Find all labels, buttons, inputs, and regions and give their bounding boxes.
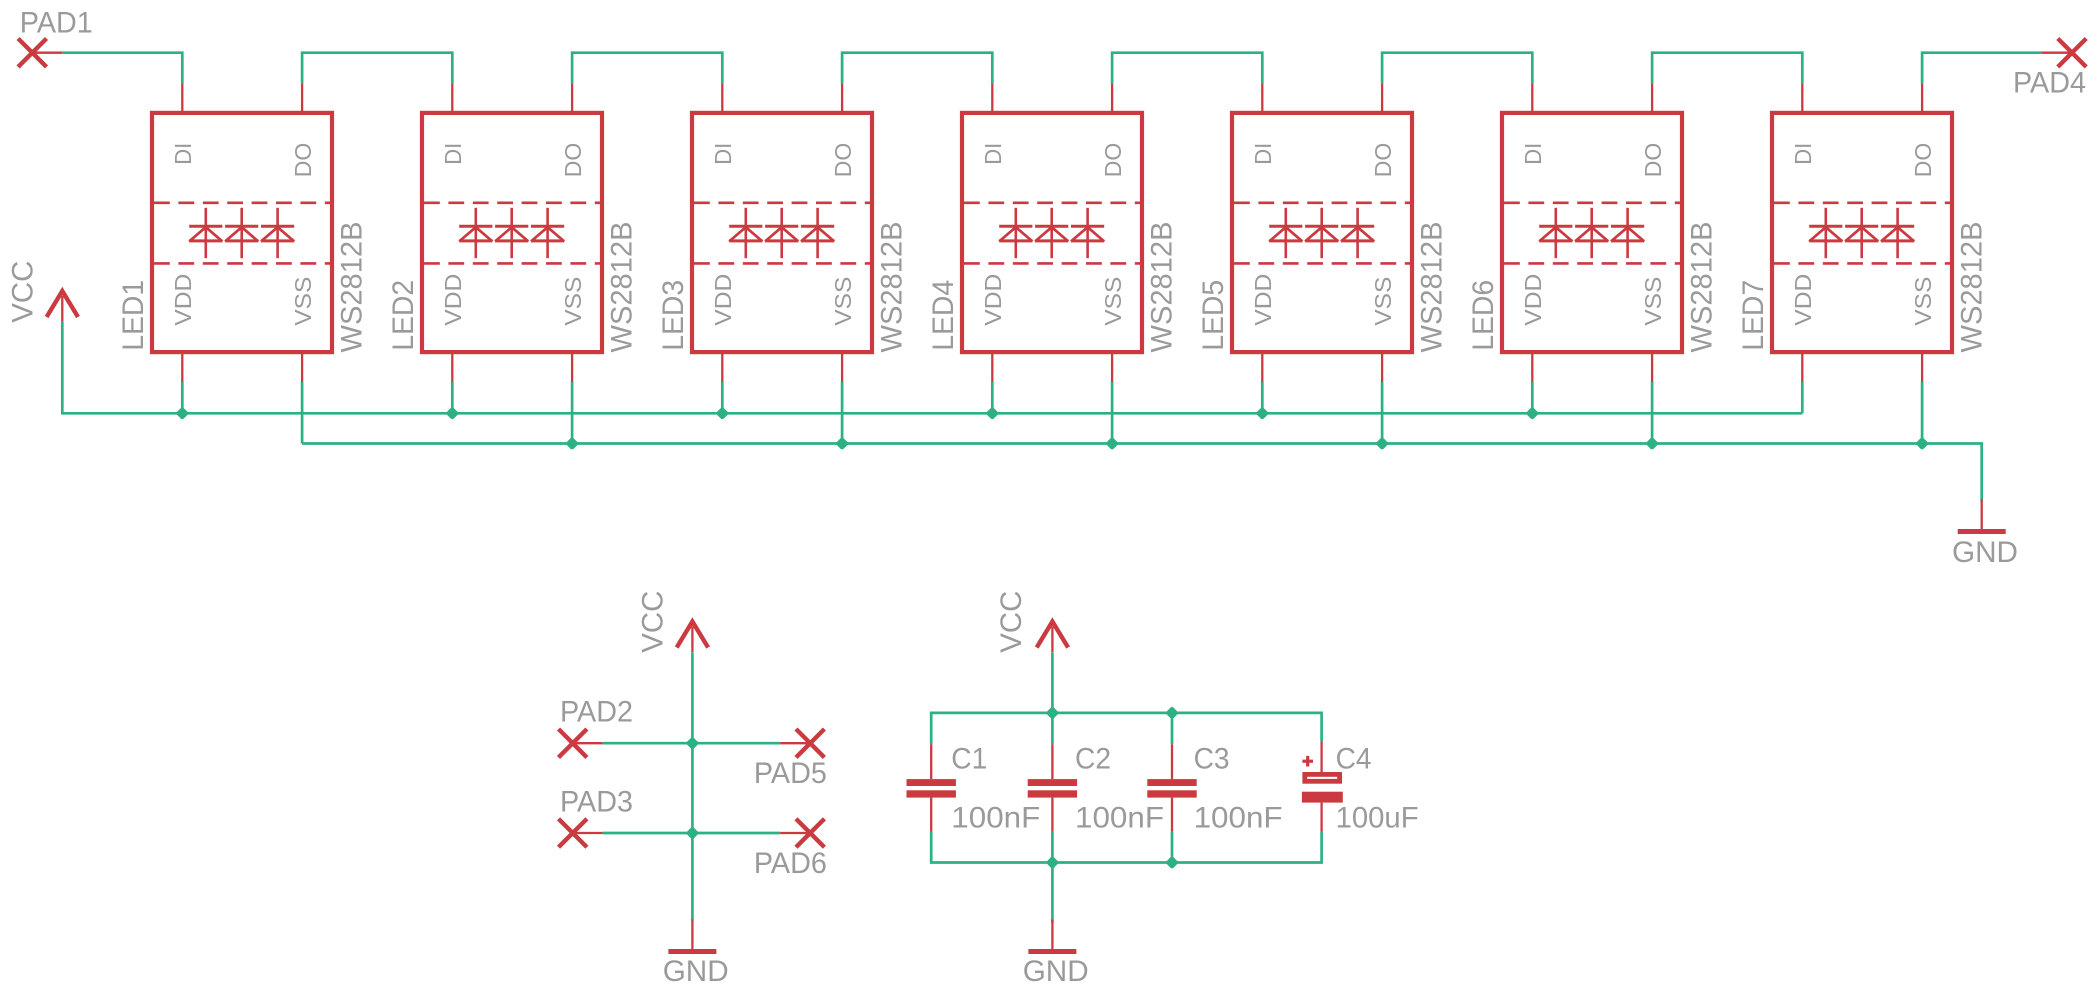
- svg-text:VSS: VSS: [1640, 277, 1666, 326]
- svg-text:C3: C3: [1194, 743, 1230, 776]
- pin VSS of LED7: [1910, 277, 1936, 382]
- IC LED2 WS2812B symbol box: [422, 113, 602, 352]
- svg-text:VDD: VDD: [1520, 274, 1546, 326]
- pin VDD of LED6: [1520, 274, 1546, 382]
- wire LED4 DO to LED5 DI: [1112, 53, 1262, 84]
- internal LED diode 3 of LED5: [1341, 208, 1374, 258]
- internal LED diode 3 of LED7: [1881, 208, 1914, 258]
- wire VCC down to cap top bus: [1051, 652, 1054, 713]
- wire cap bottom bus: [931, 832, 1321, 863]
- svg-text:WS2812B: WS2812B: [1686, 222, 1719, 353]
- svg-text:DI: DI: [1250, 143, 1276, 165]
- wire C3 bottom drop: [1171, 832, 1174, 863]
- svg-text:PAD1: PAD1: [20, 7, 93, 40]
- svg-text:DI: DI: [440, 143, 466, 165]
- svg-text:C4: C4: [1336, 743, 1372, 776]
- svg-text:PAD4: PAD4: [2013, 67, 2086, 100]
- wire LED3 VDD drop: [721, 382, 724, 413]
- internal LED diode 2 of LED1: [225, 208, 258, 258]
- wire node to PAD6: [692, 832, 780, 835]
- svg-text:DO: DO: [1100, 143, 1126, 178]
- svg-text:WS2812B: WS2812B: [606, 222, 639, 353]
- wire LED5 VSS drop: [1381, 382, 1384, 444]
- svg-text:WS2812B: WS2812B: [876, 222, 909, 353]
- pin DI of LED4: [980, 84, 1006, 165]
- wire LED2 DO to LED3 DI: [572, 53, 722, 84]
- ground symbol GND (capacitor bank): [1023, 920, 1089, 989]
- junction on VSS bus at LED2: [565, 437, 579, 451]
- pad PAD5: [754, 729, 827, 790]
- svg-text:DO: DO: [1370, 143, 1396, 178]
- svg-text:C1: C1: [951, 743, 987, 776]
- junction on VDD bus at LED5: [1256, 407, 1270, 421]
- svg-text:100nF: 100nF: [1075, 802, 1164, 835]
- svg-text:VDD: VDD: [440, 274, 466, 326]
- junction on VDD bus at LED3: [716, 407, 730, 421]
- svg-text:VDD: VDD: [710, 274, 736, 326]
- pad PAD4: [2013, 39, 2086, 100]
- wire LED6 DO to LED7 DI: [1652, 53, 1802, 84]
- internal LED diode 3 of LED6: [1611, 208, 1644, 258]
- svg-text:VSS: VSS: [1100, 277, 1126, 326]
- pin VDD of LED4: [980, 274, 1006, 382]
- pin VSS of LED6: [1640, 277, 1666, 382]
- junction bottom bus at C2: [1046, 856, 1060, 870]
- IC LED1 WS2812B symbol box: [152, 113, 332, 352]
- pin DI of LED2: [440, 84, 466, 165]
- pin stub of PAD5: [780, 742, 810, 744]
- svg-text:VCC: VCC: [7, 261, 40, 323]
- wire LED3 DO to LED4 DI: [842, 53, 992, 84]
- wire node to PAD5: [692, 742, 780, 745]
- pin DI of LED6: [1520, 84, 1546, 165]
- wire PAD3 node to GND: [691, 833, 694, 921]
- svg-text:C2: C2: [1075, 743, 1111, 776]
- junction on VDD bus at LED2: [446, 407, 460, 421]
- svg-text:DO: DO: [830, 143, 856, 178]
- wire LED1 DO to LED2 DI: [302, 53, 452, 84]
- wire C3 top drop: [1171, 713, 1174, 744]
- pin VDD of LED1: [170, 274, 196, 382]
- svg-text:VDD: VDD: [170, 274, 196, 326]
- svg-text:LED7: LED7: [1737, 280, 1770, 351]
- IC LED7 WS2812B symbol box: [1772, 113, 1952, 352]
- svg-text:PAD2: PAD2: [560, 696, 633, 729]
- pin VSS of LED3: [830, 277, 856, 382]
- wire C2 bottom drop: [1051, 832, 1054, 863]
- svg-text:VSS: VSS: [290, 277, 316, 326]
- junction on VSS bus at LED4: [1105, 437, 1119, 451]
- pin DO of LED5: [1370, 84, 1396, 177]
- wire LED1 VSS drop: [301, 382, 304, 444]
- pin DO of LED2: [560, 84, 586, 177]
- svg-text:WS2812B: WS2812B: [1956, 222, 1989, 353]
- pin DI of LED5: [1250, 84, 1276, 165]
- wire LED7 VSS drop: [1921, 382, 1924, 444]
- pin DO of LED7: [1910, 84, 1936, 177]
- wire C2 top drop: [1051, 713, 1054, 744]
- wire VCC to VDD bus: [62, 322, 1802, 414]
- internal LED diode 3 of LED4: [1071, 208, 1104, 258]
- internal LED diode 1 of LED6: [1539, 208, 1572, 258]
- svg-text:LED2: LED2: [387, 280, 420, 351]
- capacitor C4 100uF polarized: [1302, 742, 1343, 832]
- wire LED7 VDD drop: [1801, 382, 1804, 413]
- svg-text:DO: DO: [1640, 143, 1666, 178]
- svg-text:GND: GND: [663, 955, 729, 988]
- svg-text:100nF: 100nF: [1194, 802, 1283, 835]
- internal LED diode 2 of LED2: [495, 208, 528, 258]
- wire PAD1 to LED1 DI: [62, 53, 182, 84]
- internal LED diode 2 of LED3: [765, 208, 798, 258]
- internal LED diode 1 of LED5: [1269, 208, 1302, 258]
- IC LED4 WS2812B symbol box: [962, 113, 1142, 352]
- wire LED2 VDD drop: [451, 382, 454, 413]
- ground symbol GND (main rail): [1952, 500, 2018, 570]
- junction top bus at C3: [1165, 706, 1179, 720]
- wire LED4 VSS drop: [1111, 382, 1114, 444]
- svg-text:VDD: VDD: [1790, 274, 1816, 326]
- pin VDD of LED5: [1250, 274, 1276, 382]
- IC LED6 WS2812B symbol box: [1502, 113, 1682, 352]
- pad PAD2: [559, 696, 634, 758]
- internal LED diode 2 of LED5: [1305, 208, 1338, 258]
- internal LED diode 3 of LED2: [531, 208, 564, 258]
- wire PAD2 node down to PAD3 node: [691, 743, 694, 833]
- wire VSS bus to GND: [302, 444, 1982, 502]
- svg-text:VSS: VSS: [560, 277, 586, 326]
- internal LED diode 1 of LED7: [1809, 208, 1842, 258]
- svg-text:LED6: LED6: [1467, 280, 1500, 351]
- pin DI of LED3: [710, 84, 736, 165]
- svg-text:PAD6: PAD6: [754, 847, 827, 880]
- svg-text:VCC: VCC: [995, 591, 1028, 653]
- pin stub of PAD4: [2042, 52, 2072, 54]
- svg-text:PAD5: PAD5: [754, 757, 827, 790]
- junction on VSS bus at LED3: [835, 437, 849, 451]
- svg-text:DI: DI: [1790, 143, 1816, 165]
- junction bottom bus at C3: [1165, 856, 1179, 870]
- wire cap top bus: [931, 713, 1321, 744]
- junction PAD3/PAD6 node: [686, 826, 700, 840]
- pad PAD1: [18, 7, 93, 67]
- svg-text:DI: DI: [1520, 143, 1546, 165]
- pin stub of PAD1: [32, 52, 62, 54]
- pin DI of LED1: [170, 84, 196, 165]
- internal LED diode 2 of LED6: [1575, 208, 1608, 258]
- capacitor C2 100nF: [1028, 744, 1077, 832]
- IC LED5 WS2812B symbol box: [1232, 113, 1412, 352]
- internal LED diode 1 of LED2: [459, 208, 492, 258]
- junction top bus at C2: [1046, 706, 1060, 720]
- pin stub of PAD2: [573, 742, 603, 744]
- wire LED2 VSS drop: [571, 382, 574, 444]
- junction on VDD bus at LED6: [1526, 407, 1540, 421]
- power symbol VCC (pad group): [637, 591, 708, 653]
- pin stub of PAD6: [780, 832, 810, 834]
- svg-text:100nF: 100nF: [951, 802, 1040, 835]
- wire bottom bus to GND (capacitor bank): [1051, 863, 1054, 923]
- pin stub of PAD3: [573, 832, 603, 834]
- pin VSS of LED1: [290, 277, 316, 382]
- svg-text:LED3: LED3: [657, 280, 690, 351]
- svg-text:LED1: LED1: [117, 280, 150, 351]
- svg-text:WS2812B: WS2812B: [1146, 222, 1179, 353]
- junction on VSS bus at LED5: [1375, 437, 1389, 451]
- pin VSS of LED2: [560, 277, 586, 382]
- svg-text:LED5: LED5: [1197, 280, 1230, 351]
- pad PAD6: [754, 819, 827, 880]
- internal LED diode 2 of LED4: [1035, 208, 1068, 258]
- svg-text:DI: DI: [980, 143, 1006, 165]
- internal LED diode 1 of LED3: [729, 208, 762, 258]
- wire LED6 VSS drop: [1651, 382, 1654, 444]
- plus polarity mark of C4: [1302, 756, 1313, 767]
- svg-text:DI: DI: [710, 143, 736, 165]
- pin DO of LED4: [1100, 84, 1126, 177]
- svg-text:GND: GND: [1023, 955, 1089, 988]
- wire LED5 DO to LED6 DI: [1382, 53, 1532, 84]
- wire LED4 VDD drop: [991, 382, 994, 413]
- svg-text:GND: GND: [1952, 536, 2018, 569]
- pin VDD of LED7: [1790, 274, 1816, 382]
- wire LED5 VDD drop: [1261, 382, 1264, 413]
- svg-text:DO: DO: [1910, 143, 1936, 178]
- junction on VSS bus at LED7: [1915, 437, 1929, 451]
- wire LED6 VDD drop: [1531, 382, 1534, 413]
- svg-text:DO: DO: [290, 143, 316, 178]
- wire PAD2 to node: [603, 742, 693, 745]
- internal LED diode 2 of LED7: [1845, 208, 1878, 258]
- wire PAD3 to node: [603, 832, 693, 835]
- junction on VSS bus at LED6: [1645, 437, 1659, 451]
- svg-text:VSS: VSS: [1370, 277, 1396, 326]
- svg-text:VDD: VDD: [1250, 274, 1276, 326]
- internal LED diode 3 of LED3: [801, 208, 834, 258]
- wire LED7 DO to PAD4: [1922, 53, 2042, 84]
- capacitor C3 100nF: [1147, 744, 1196, 832]
- pin DO of LED6: [1640, 84, 1666, 177]
- svg-text:WS2812B: WS2812B: [336, 222, 369, 353]
- junction PAD2/PAD5 node: [686, 736, 700, 750]
- capacitor C1 100nF: [907, 744, 956, 832]
- svg-text:WS2812B: WS2812B: [1416, 222, 1449, 353]
- internal LED diode 1 of LED4: [999, 208, 1032, 258]
- svg-text:VSS: VSS: [830, 277, 856, 326]
- svg-text:LED4: LED4: [927, 280, 960, 351]
- svg-text:100uF: 100uF: [1336, 802, 1419, 835]
- IC LED3 WS2812B symbol box: [692, 113, 872, 352]
- svg-text:VCC: VCC: [637, 591, 670, 653]
- junction on VDD bus at LED4: [986, 407, 1000, 421]
- pin VSS of LED5: [1370, 277, 1396, 382]
- ground symbol GND (pad group): [663, 920, 729, 989]
- pad PAD3: [559, 785, 634, 847]
- svg-text:PAD3: PAD3: [560, 785, 633, 818]
- wire LED3 VSS drop: [841, 382, 844, 444]
- junction on VDD bus at LED1: [176, 407, 190, 421]
- pin DO of LED3: [830, 84, 856, 177]
- pin DO of LED1: [290, 84, 316, 177]
- internal LED diode 1 of LED1: [189, 208, 222, 258]
- svg-text:DI: DI: [170, 143, 196, 165]
- pin DI of LED7: [1790, 84, 1816, 165]
- pin VSS of LED4: [1100, 277, 1126, 382]
- pin VDD of LED2: [440, 274, 466, 382]
- svg-text:DO: DO: [560, 143, 586, 178]
- power symbol VCC (capacitor bank): [995, 591, 1068, 653]
- internal LED diode 3 of LED1: [261, 208, 294, 258]
- svg-text:VDD: VDD: [980, 274, 1006, 326]
- wire LED1 VDD drop: [181, 382, 184, 413]
- pin VDD of LED3: [710, 274, 736, 382]
- svg-text:VSS: VSS: [1910, 277, 1936, 326]
- power symbol VCC (main rail): [7, 261, 78, 323]
- wire VCC down to PAD2/PAD5 node: [691, 652, 694, 743]
